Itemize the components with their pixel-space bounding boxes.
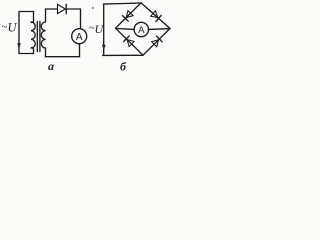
svg-text:A: A — [138, 25, 145, 36]
wire primary top lead — [19, 12, 34, 23]
diode VD3 (upper-right arm) — [151, 11, 158, 18]
wire left vertex to ammeter — [116, 28, 134, 31]
ammeter PA1 — [72, 29, 87, 44]
diode VD2 (upper-left arm) — [126, 11, 133, 18]
wire source arrow shaft (circuit b) — [103, 5, 105, 55]
transformer T1 secondary winding — [41, 22, 45, 48]
wire ammeter bottom return — [46, 44, 80, 57]
wire top lead to bridge — [104, 3, 142, 4]
wire bottom lead to bridge — [103, 54, 143, 56]
wire primary bottom lead — [19, 48, 34, 54]
ammeter PA2 — [134, 22, 148, 36]
transformer T1 primary winding — [31, 22, 35, 48]
bridge side top-left — [116, 3, 142, 28]
wire source arrow shaft (circuit a) — [18, 13, 20, 54]
svg-text:б: б — [120, 60, 127, 74]
svg-text:U: U — [95, 22, 105, 36]
wire ammeter to right vertex — [149, 28, 170, 31]
wire secondary top lead — [46, 9, 58, 22]
stray scan mark — [92, 7, 94, 9]
diode VD1 — [58, 4, 66, 13]
bridge side top-right — [141, 3, 170, 29]
diode VD4 (lower-left arm) — [127, 40, 134, 47]
node arrowhead (circuit b) — [102, 45, 106, 51]
diode VD5 (lower-right arm) — [152, 40, 159, 47]
transformer T1 core — [36, 22, 38, 52]
svg-text:а: а — [48, 59, 54, 73]
bridge side bottom-right — [143, 29, 170, 56]
svg-text:U: U — [8, 21, 18, 35]
node arrowhead (circuit a) — [17, 43, 20, 50]
wire diode to corner — [66, 9, 80, 29]
bridge side bottom-left — [116, 28, 144, 55]
svg-text:A: A — [76, 32, 83, 43]
